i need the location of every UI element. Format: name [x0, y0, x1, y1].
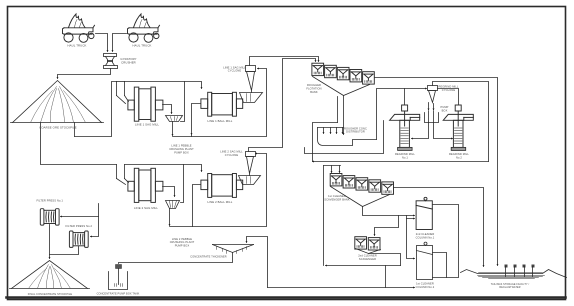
wire pump box to vertimill 1: [412, 123, 429, 139]
svg-text:RECLAIM WATER: RECLAIM WATER: [499, 286, 520, 289]
gyratory crusher: [104, 54, 137, 69]
svg-text:ROUGHER: ROUGHER: [307, 83, 321, 87]
wire scav conc riser: [337, 97, 339, 123]
svg-text:LINE 2 SAG MILL: LINE 2 SAG MILL: [220, 150, 243, 154]
svg-text:REGRIND MILL: REGRIND MILL: [439, 84, 459, 88]
cleaner scavenger cells pair: [355, 237, 380, 261]
wire concentrate riser to regrind cyclone: [377, 89, 427, 140]
wire pair feed: [375, 216, 399, 236]
wire crusher to stockpile: [58, 69, 111, 79]
screen 2: [166, 201, 195, 248]
wire junction jog: [305, 148, 313, 154]
svg-text:SCAVENGER BANK: SCAVENGER BANK: [324, 197, 350, 201]
cyclone 1: [223, 65, 255, 90]
column cell 1st cleaner: [416, 242, 435, 289]
svg-text:FILTER PRESS No.2: FILTER PRESS No.2: [66, 224, 93, 228]
wire ball mill 2 discharge: [193, 185, 201, 227]
haul truck 1: [63, 14, 95, 48]
wire pair launder: [356, 249, 381, 254]
wire cyclone1 overflow to rougher: [250, 57, 319, 66]
svg-text:DISTRIBUTOR: DISTRIBUTOR: [346, 130, 365, 134]
wire line 1 pebble return header: [125, 82, 202, 89]
wire vertimill1 discharge riser: [404, 89, 406, 105]
svg-text:No.2: No.2: [456, 156, 462, 160]
SAG mill 2: [128, 168, 163, 210]
wire cleaner scav tails to dam: [394, 188, 484, 267]
wire filter feed line: [91, 204, 99, 237]
wire thickener underflow to pump tank: [119, 253, 233, 264]
wire regrind product long run: [313, 161, 489, 163]
vertimill 1: [390, 105, 420, 160]
svg-text:No.1: No.1: [402, 156, 408, 160]
wire cleaner scav bank feed header: [324, 166, 341, 173]
cyclone 2: [220, 150, 255, 174]
svg-text:FLOTATION: FLOTATION: [306, 87, 321, 91]
coarse ore stockpile: [11, 81, 104, 130]
svg-text:BOX: BOX: [442, 109, 448, 113]
wire line 1 pebble riser: [181, 82, 185, 122]
svg-text:PUMP: PUMP: [441, 105, 449, 109]
vertimill 2: [443, 105, 473, 160]
svg-text:CYCLONE: CYCLONE: [228, 69, 242, 73]
svg-text:SCAVENGER: SCAVENGER: [359, 257, 376, 261]
filter press 2: [66, 224, 93, 247]
wire line 1 pump box run to cyclone riser: [173, 69, 267, 137]
svg-text:HAUL TRUCK: HAUL TRUCK: [68, 44, 87, 48]
cleaner scavenger bank cells 1-5: [324, 174, 393, 202]
svg-text:LINE 1 SAG MILL: LINE 1 SAG MILL: [223, 65, 246, 69]
column cell 2nd cleaner: [416, 197, 435, 239]
wire thickener feed: [247, 237, 268, 288]
ball mill 2: [201, 174, 243, 205]
svg-text:REGRIND MILL: REGRIND MILL: [449, 152, 469, 156]
wire stockpile to line 2 feed: [41, 123, 117, 165]
svg-text:COLUMN No.1: COLUMN No.1: [416, 235, 435, 239]
wire rougher launder: [313, 77, 370, 96]
svg-text:LINE 1 BALL MILL: LINE 1 BALL MILL: [208, 119, 233, 123]
regrind pump box: [425, 103, 449, 123]
svg-text:PUMP BOX: PUMP BOX: [175, 244, 190, 248]
wire vertimill 1 return line: [313, 121, 384, 154]
svg-text:CYCLONE: CYCLONE: [225, 153, 239, 157]
wire 2nd cleaner tails to 1st cleaner: [407, 219, 415, 259]
wire truck2 to crusher: [113, 34, 127, 52]
svg-text:CONCENTRATE PUMP BOX TANK: CONCENTRATE PUMP BOX TANK: [97, 292, 140, 295]
wire pair conc run: [369, 254, 401, 266]
wire cyclone2 underflow chute: [239, 174, 261, 185]
svg-text:LINE 1 SAG MILL: LINE 1 SAG MILL: [135, 123, 159, 127]
wire line 1 feed chute drops: [117, 82, 129, 104]
wire vertimill2 discharge riser: [438, 89, 459, 105]
filter press 1: [36, 198, 63, 225]
wire filter 1 feed: [61, 216, 99, 218]
screen 1: [166, 116, 195, 155]
ball mill 1: [201, 92, 243, 123]
tailings dam: [461, 265, 567, 290]
wire stockpile to line 1 feed: [74, 123, 76, 137]
wire pump box to vertimill 2: [434, 123, 453, 139]
rougher flotation bank cells 1-5: [306, 63, 374, 94]
wire screen1 underflow: [172, 122, 174, 136]
wire line 1 feed run: [75, 82, 117, 137]
wire 1st cleaner bottom run: [268, 266, 415, 288]
wire filters to final stockpile: [50, 225, 79, 259]
wire rougher concentrate downcomer: [343, 96, 345, 135]
svg-text:CRUSHER: CRUSHER: [121, 60, 136, 64]
wire rougher tails to dam: [375, 78, 498, 266]
rougher conc distributor: [318, 126, 377, 145]
svg-text:CRUSHING PLANT: CRUSHING PLANT: [170, 240, 195, 244]
final concentrate stockpile: [10, 261, 90, 297]
wire cleaner scav conc to column feed: [363, 207, 415, 216]
wire line 2 pebble return header: [125, 165, 202, 172]
wire line 2 pump box run to cyclone riser: [170, 154, 267, 227]
svg-text:2nd CLEANER: 2nd CLEANER: [358, 253, 377, 257]
wire truck1 to crusher: [96, 34, 108, 52]
svg-text:2nd CLEANER: 2nd CLEANER: [416, 232, 435, 236]
svg-text:COLUMN No.2: COLUMN No.2: [416, 285, 435, 289]
svg-text:REGRIND MILL: REGRIND MILL: [395, 152, 415, 156]
wire line 2 pebble riser: [181, 165, 184, 203]
svg-text:LINE 2 PEBBLE: LINE 2 PEBBLE: [172, 237, 192, 241]
wire ball mill 1 discharge: [192, 104, 201, 137]
svg-text:ROUGHER CONC: ROUGHER CONC: [344, 126, 367, 130]
wire cleaner scav feed loop: [313, 123, 338, 162]
wire SAG2 discharge: [163, 187, 175, 197]
haul truck 2: [128, 14, 160, 48]
wire scav tails return: [324, 166, 401, 266]
wire cyclone1 underflow chute: [240, 91, 263, 103]
svg-text:FILTER PRESS No.1: FILTER PRESS No.1: [36, 198, 63, 202]
svg-text:CONCENTRATE THICKENER: CONCENTRATE THICKENER: [190, 256, 227, 259]
svg-text:LINE 2 SAG MILL: LINE 2 SAG MILL: [134, 206, 158, 210]
wire screen2 underflow: [169, 209, 171, 226]
svg-text:BANK: BANK: [310, 90, 318, 94]
svg-text:HAUL TRUCK: HAUL TRUCK: [133, 44, 152, 48]
wire SAG1 discharge: [163, 105, 172, 114]
wire cyclone2 overflow to rougher: [249, 59, 316, 152]
wire line 2 feed chute drops: [117, 165, 129, 185]
SAG mill 1: [128, 87, 163, 127]
concentrate pump tank: [97, 272, 140, 296]
svg-text:LINE 2 BALL MILL: LINE 2 BALL MILL: [208, 200, 233, 204]
svg-text:LINE 1 PEBBLE: LINE 1 PEBBLE: [171, 144, 191, 148]
wire cleaner scav launder: [331, 187, 390, 207]
wire column recycle loop: [433, 205, 459, 278]
wire 2nd cleaner second feed: [407, 216, 415, 219]
regrind cyclone: [428, 84, 459, 102]
svg-text:COARSE ORE STOCKPILE: COARSE ORE STOCKPILE: [39, 125, 76, 129]
wire column mid stub: [433, 253, 447, 278]
concentrate pump: [116, 265, 122, 285]
svg-text:CRUSHING PLANT: CRUSHING PLANT: [169, 147, 194, 151]
concentrate thickener: [190, 245, 253, 259]
svg-text:PUMP BOX: PUMP BOX: [174, 150, 189, 154]
svg-text:FINAL CONCENTRATE STOCKPILE: FINAL CONCENTRATE STOCKPILE: [28, 293, 73, 296]
svg-text:1st CLEANER: 1st CLEANER: [416, 282, 434, 286]
wire regrind cyclone overflow: [433, 82, 489, 162]
